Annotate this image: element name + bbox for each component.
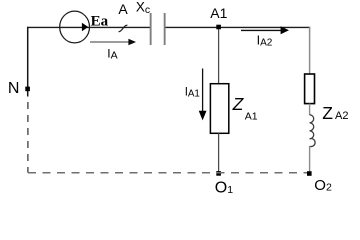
switch slash at phase A [119,25,128,31]
wire right branch upper [309,27,311,74]
wire between ZA2 box and coil [309,104,311,115]
svg-text:A1: A1 [210,5,227,21]
wire top-left horizontal segment [27,26,150,28]
svg-text:Ea: Ea [91,14,109,30]
arrowhead inside source Ea [82,23,88,31]
capacitor Xc right plate [164,13,166,45]
current arrow IA1 [202,69,204,113]
impedance ZA1 box [210,84,228,134]
wire left vertical [27,27,29,97]
svg-text:N: N [8,80,20,97]
svg-text:Xc: Xc [136,0,150,16]
svg-text:IA1: IA1 [185,86,200,99]
wire right branch lower [309,146,311,172]
wire middle branch upper [218,29,220,84]
node N [25,87,30,92]
svg-text:O1: O1 [215,180,233,197]
voltage source Ea [60,11,90,43]
svg-text:Z: Z [232,94,245,114]
inductor coil of ZA2 [310,115,316,147]
svg-text:IA2: IA2 [257,33,273,48]
node A1 [216,25,221,30]
wire middle branch lower [218,133,220,172]
current arrow IA2 [241,29,282,31]
svg-text:A1: A1 [245,110,258,122]
wire dashed neutral horizontal [28,172,307,174]
wire top-right horizontal segment [166,26,311,28]
svg-text:Z: Z [322,103,333,123]
svg-text:A2: A2 [335,110,348,122]
capacitor Xc left plate [150,13,152,45]
impedance ZA2 box [305,74,315,104]
node O2 [307,171,312,176]
svg-text:O2: O2 [314,177,332,194]
svg-text:IA: IA [107,46,117,61]
current arrow IA [90,41,130,43]
node O1 [216,171,221,176]
svg-text:A: A [118,1,128,17]
wire dashed neutral vertical [27,102,29,173]
